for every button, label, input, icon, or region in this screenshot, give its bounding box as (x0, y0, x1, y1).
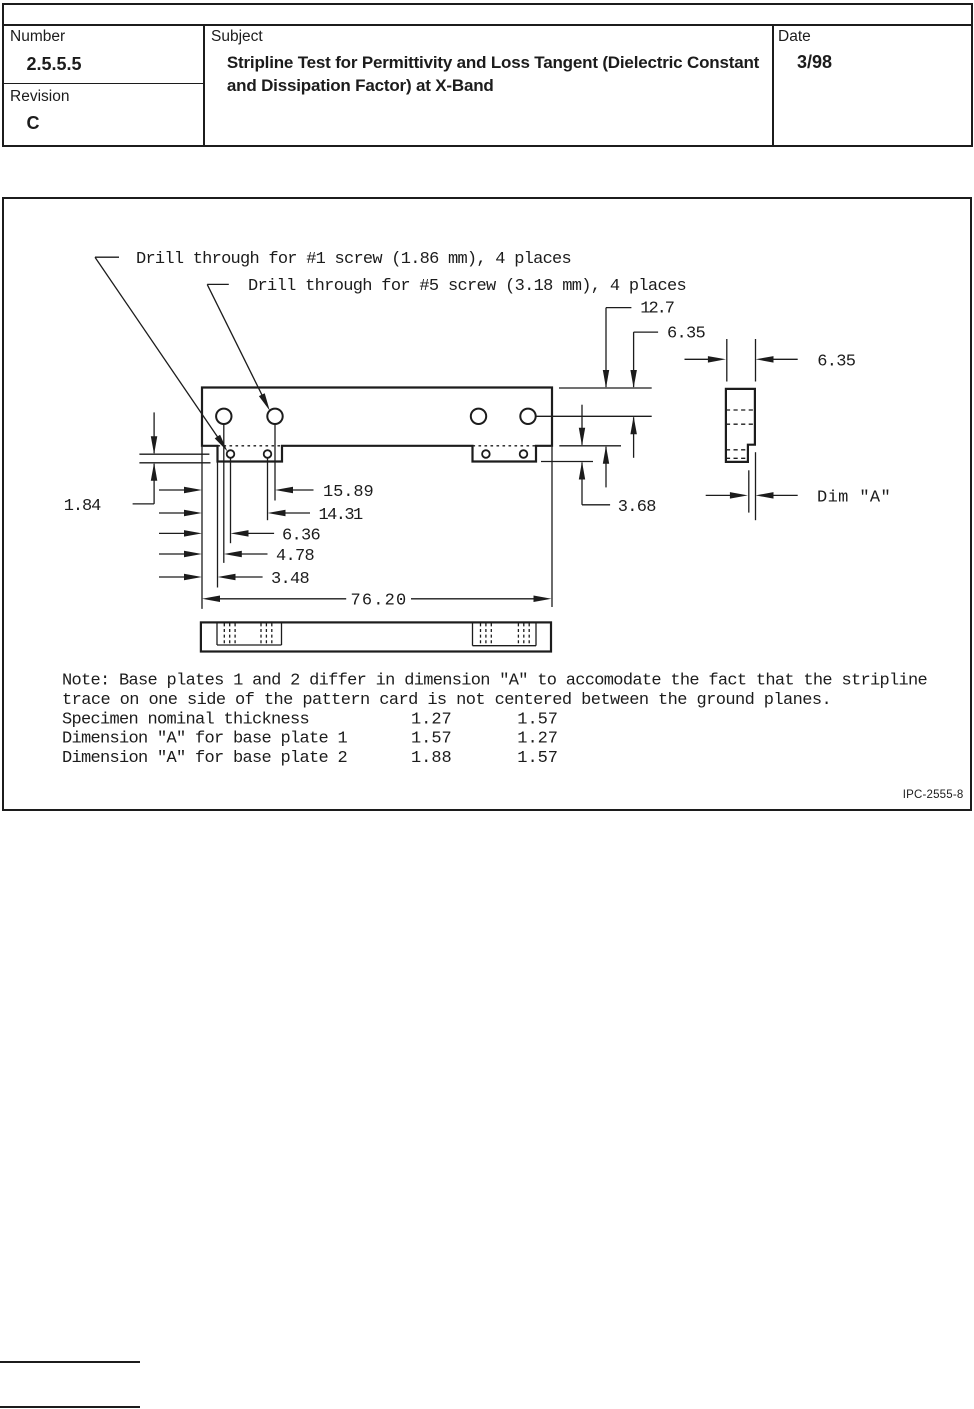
dim 14.31 right arrowhead (268, 510, 286, 516)
dim 14.31 right line (284, 512, 311, 514)
header right border (971, 3, 973, 147)
dim 3.68 upper line (581, 405, 583, 445)
base plate outline (side view) (202, 388, 552, 462)
end view hidden hole line 1 (726, 409, 755, 411)
note line 1 (62, 671, 927, 690)
bottom view outline (201, 622, 551, 651)
dim 1.84 elbow (133, 503, 155, 505)
bottom view hidden hole lines at 523.8 (518, 623, 529, 644)
footnote rule 1 (0, 1361, 140, 1363)
dim 3.48 right line (234, 576, 263, 578)
dim 3.68 elbow (582, 504, 610, 506)
dim 6.35v lower line (633, 417, 635, 458)
dim 6.36 left arrow line (159, 532, 185, 534)
value 3/98 (797, 52, 832, 73)
svg-text:Note: Base plates 1 and 2 diff: Note: Base plates 1 and 2 differ in dime… (62, 671, 927, 690)
dim 76.20 right arrowhead (534, 596, 552, 603)
dim 6.35v upper line (633, 332, 635, 387)
svg-text:1.27: 1.27 (411, 711, 451, 730)
leader #1 screw diagonal (95, 257, 225, 447)
note line 2 (62, 691, 831, 710)
dim 6.35h right arrowhead (756, 356, 774, 363)
dim 12.7 lower line (605, 447, 607, 488)
leader #1 screw horizontal bar (95, 256, 119, 258)
figure frame (2, 197, 972, 811)
svg-text:1.84: 1.84 (64, 497, 101, 516)
dim 12.7 elbow (606, 307, 631, 309)
header bottom rule (2, 145, 972, 147)
dim 1.84 lower line (153, 464, 155, 504)
hidden edge dotted line right tab (473, 445, 537, 447)
value C (27, 113, 40, 134)
label 15.89 (323, 483, 373, 502)
dim 6.35v elbow (634, 331, 659, 333)
svg-text:1.57: 1.57 (517, 711, 557, 730)
bottom view right tab right edge (535, 622, 537, 645)
label Number (10, 28, 65, 46)
svg-text:Drill through for #5 screw (3.: Drill through for #5 screw (3.18 mm), 4 … (248, 277, 686, 296)
dim 3.48 left arrowhead (184, 574, 202, 580)
bottom view left tab right edge (281, 622, 283, 645)
dim A left line (706, 494, 731, 496)
svg-text:4.78: 4.78 (276, 547, 314, 566)
dim A right line (772, 494, 798, 496)
label 1.84 (64, 497, 101, 516)
centerline hole3 down (267, 458, 269, 520)
ext line hole centerline right (536, 415, 652, 417)
centerline hole2 down (230, 458, 232, 543)
subject text (227, 52, 759, 97)
ext line left tab edge down (217, 463, 219, 588)
svg-text:12.7: 12.7 (640, 300, 674, 319)
ext line tab bottom right (541, 461, 593, 463)
ext line plate right edge down (551, 447, 553, 607)
end view hidden hole line 2 (726, 423, 755, 425)
centerline hole1 down (223, 424, 225, 563)
dim 4.78 right arrowhead (224, 551, 242, 557)
header divider number/revision (2, 83, 203, 85)
label Date (778, 28, 811, 46)
bottom view right tab left edge (472, 622, 474, 645)
bottom view left tab bottom (217, 644, 282, 646)
hole #1 screw tab-left-2 (264, 450, 272, 458)
ext line plate bottom edge right (559, 445, 621, 447)
label Subject (211, 28, 263, 46)
header divider number/subject (203, 24, 205, 145)
label 6.36 (282, 526, 320, 545)
centerline hole4 down (274, 424, 276, 500)
dim 15.89 left arrowhead (184, 487, 202, 493)
dim 6.36 right arrowhead (231, 530, 249, 537)
end view tab hidden line 1 (726, 449, 748, 451)
leader #5 screw horizontal bar (207, 283, 229, 285)
dim 14.31 left arrow line (159, 512, 185, 514)
svg-text:3.68: 3.68 (618, 498, 656, 517)
end view ext line tab edge down (748, 470, 750, 512)
svg-text:Dimension "A" for base plate 1: Dimension "A" for base plate 1 (62, 730, 347, 749)
dim 1.84 lower arrowhead (151, 463, 158, 481)
hole #1 screw tab-right-1 (482, 450, 490, 458)
bottom view hidden hole lines at 229.7 (224, 623, 235, 644)
dim A right arrowhead (756, 492, 774, 499)
dim 15.89 right line (291, 489, 314, 491)
label drill #5 screw (248, 277, 686, 296)
dim 1.84 upper line (153, 412, 155, 453)
dim 6.35v lower arrowhead (630, 416, 637, 434)
svg-text:IPC-2555-8: IPC-2555-8 (903, 789, 964, 801)
svg-text:1.88: 1.88 (411, 749, 451, 768)
svg-text:14.31: 14.31 (319, 506, 363, 525)
hole #5 screw top-right (520, 409, 535, 424)
leader #1 screw arrowhead (215, 435, 228, 452)
bottom view left tab left edge (216, 622, 218, 645)
dim 3.68 lower line (581, 463, 583, 505)
end view ext line right edge down (755, 452, 757, 520)
label 14.31 (319, 506, 363, 525)
dim 76.20 left line (219, 598, 346, 600)
label drill #1 screw (136, 250, 571, 269)
dim 6.35h left line (685, 358, 710, 360)
header outer top rule (2, 3, 972, 5)
dim 1.84 upper arrowhead (151, 436, 158, 454)
leader #5 screw arrowhead (259, 393, 270, 411)
svg-text:1.57: 1.57 (411, 730, 451, 749)
dim 3.68 lower arrowhead (579, 462, 585, 480)
label Revision (10, 88, 69, 106)
dim 76.20 right line (411, 598, 534, 600)
note line 5 (62, 749, 557, 768)
dim 6.35h right line (772, 358, 798, 360)
dim 15.89 right arrowhead (275, 487, 293, 493)
hole #1 screw tab-left-1 (227, 450, 235, 458)
label 76.20 (351, 591, 406, 610)
ext line plate left edge down (201, 447, 203, 609)
svg-text:15.89: 15.89 (323, 483, 373, 502)
dim 4.78 left arrow line (159, 553, 185, 555)
ext line tab bottom left (139, 462, 210, 464)
svg-text:Dim "A": Dim "A" (817, 488, 890, 507)
dim 14.31 left arrowhead (184, 510, 202, 516)
svg-text:Specimen nominal thickness: Specimen nominal thickness (62, 711, 309, 730)
note line 4 (62, 730, 557, 749)
dim 15.89 left arrow line (159, 489, 185, 491)
hole #5 screw left-2 (267, 409, 282, 424)
label 3.48 (271, 570, 309, 589)
label 6.35 vertical (667, 325, 705, 344)
dim 3.48 right arrowhead (218, 574, 236, 580)
leader #5 screw diagonal (207, 284, 266, 404)
label 6.35 horizontal (817, 352, 855, 371)
dim 76.20 left arrowhead (202, 596, 220, 603)
dim 4.78 left arrowhead (184, 551, 202, 557)
dim 6.35v upper arrowhead (630, 370, 637, 388)
label 3.68 (618, 498, 656, 517)
svg-text:6.35: 6.35 (817, 352, 855, 371)
dim 12.7 upper line (605, 308, 607, 387)
header left border (2, 3, 4, 147)
end view ext line left top (726, 339, 728, 382)
dim A left arrowhead (730, 492, 748, 499)
dim 3.48 left arrow line (159, 576, 185, 578)
svg-text:Dimension "A" for base plate 2: Dimension "A" for base plate 2 (62, 749, 347, 768)
svg-text:trace on one side of the patte: trace on one side of the pattern card is… (62, 691, 831, 710)
dim 12.7 upper arrowhead (603, 370, 609, 388)
footnote rule 2 (0, 1406, 140, 1408)
hole #1 screw tab-right-2 (520, 450, 528, 458)
hole #5 screw right-1 (471, 409, 486, 424)
svg-text:6.36: 6.36 (282, 526, 320, 545)
svg-text:1.57: 1.57 (517, 749, 557, 768)
end view ext line right top (755, 339, 757, 382)
label 4.78 (276, 547, 314, 566)
dim 6.35h left arrowhead (708, 356, 726, 363)
ext line hole centerline left (139, 453, 209, 455)
hidden edge dotted line left tab (218, 445, 283, 447)
dim 3.68 upper arrowhead (579, 428, 585, 446)
svg-text:76.20: 76.20 (351, 591, 406, 610)
header inner top rule (2, 24, 972, 26)
bottom view hidden hole lines at 266.4 (261, 623, 272, 644)
note line 3 (62, 711, 557, 730)
value 2.5.5.5 (27, 54, 82, 75)
svg-text:1.27: 1.27 (517, 730, 557, 749)
label 12.7 (640, 300, 674, 319)
figure number IPC-2555-8 (903, 789, 964, 801)
ext line plate top edge right (559, 387, 652, 389)
bottom view hidden hole lines at 485.9 (481, 623, 492, 644)
end view body (726, 389, 755, 462)
dim 4.78 right line (240, 553, 268, 555)
dim 6.36 right line (247, 532, 275, 534)
bottom view right tab bottom (473, 645, 537, 647)
dim 6.36 left arrowhead (184, 530, 202, 537)
end view tab hidden line 2 (726, 457, 748, 459)
label Dim A (817, 488, 890, 507)
header divider subject/date (772, 24, 774, 145)
svg-text:3.48: 3.48 (271, 570, 309, 589)
dim 12.7 lower arrowhead (603, 446, 609, 464)
hole #5 screw top-left (216, 409, 231, 424)
svg-text:Drill through for #1 screw (1.: Drill through for #1 screw (1.86 mm), 4 … (136, 250, 571, 269)
svg-text:6.35: 6.35 (667, 325, 705, 344)
